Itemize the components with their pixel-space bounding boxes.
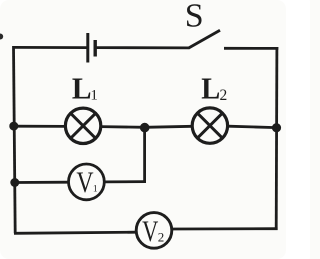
svg-text:L: L: [72, 70, 92, 105]
svg-text:V: V: [76, 166, 93, 199]
wire: middle node drop to V1 branch: [143, 128, 146, 183]
voltmeter V2: [136, 213, 172, 249]
wire: switch right contact to top-right corner: [224, 47, 278, 50]
lamp L1: [65, 108, 100, 143]
svg-text:1: 1: [90, 87, 98, 103]
svg-text:2: 2: [158, 229, 165, 244]
battery short plate: [93, 40, 96, 57]
lamp L2: [192, 108, 227, 143]
wire: top-left horizontal (battery left lead): [14, 46, 88, 49]
wire: left node to lamp L1: [14, 125, 66, 128]
wire: L1 to middle node: [101, 125, 146, 129]
label L1: [72, 70, 98, 105]
node: left lower junction: [10, 178, 19, 187]
wire: L2 to right node: [228, 126, 277, 127]
voltmeter V1: [69, 164, 105, 200]
node: middle junction: [140, 123, 150, 133]
svg-text:2: 2: [220, 87, 228, 104]
wire: left lower node to V1: [15, 181, 69, 184]
wire: right vertical: [275, 47, 278, 230]
node: right junction: [272, 123, 281, 132]
wire: middle node to lamp L2: [145, 126, 192, 127]
label L2: [201, 70, 227, 105]
svg-text:L: L: [201, 70, 220, 105]
wire: bottom left horizontal: [14, 232, 136, 233]
wire: bottom right horizontal: [173, 227, 278, 230]
wire: left vertical: [14, 46, 16, 233]
svg-text:S: S: [185, 0, 204, 35]
battery long plate: [86, 33, 89, 63]
node: left middle junction: [9, 122, 18, 131]
scan artifact at left edge: [0, 34, 3, 40]
wire: battery to switch: [97, 46, 189, 49]
wire: V1 to corner: [105, 180, 146, 183]
svg-text:V: V: [142, 215, 158, 248]
switch S blade: [188, 30, 220, 48]
svg-text:1: 1: [93, 185, 98, 195]
